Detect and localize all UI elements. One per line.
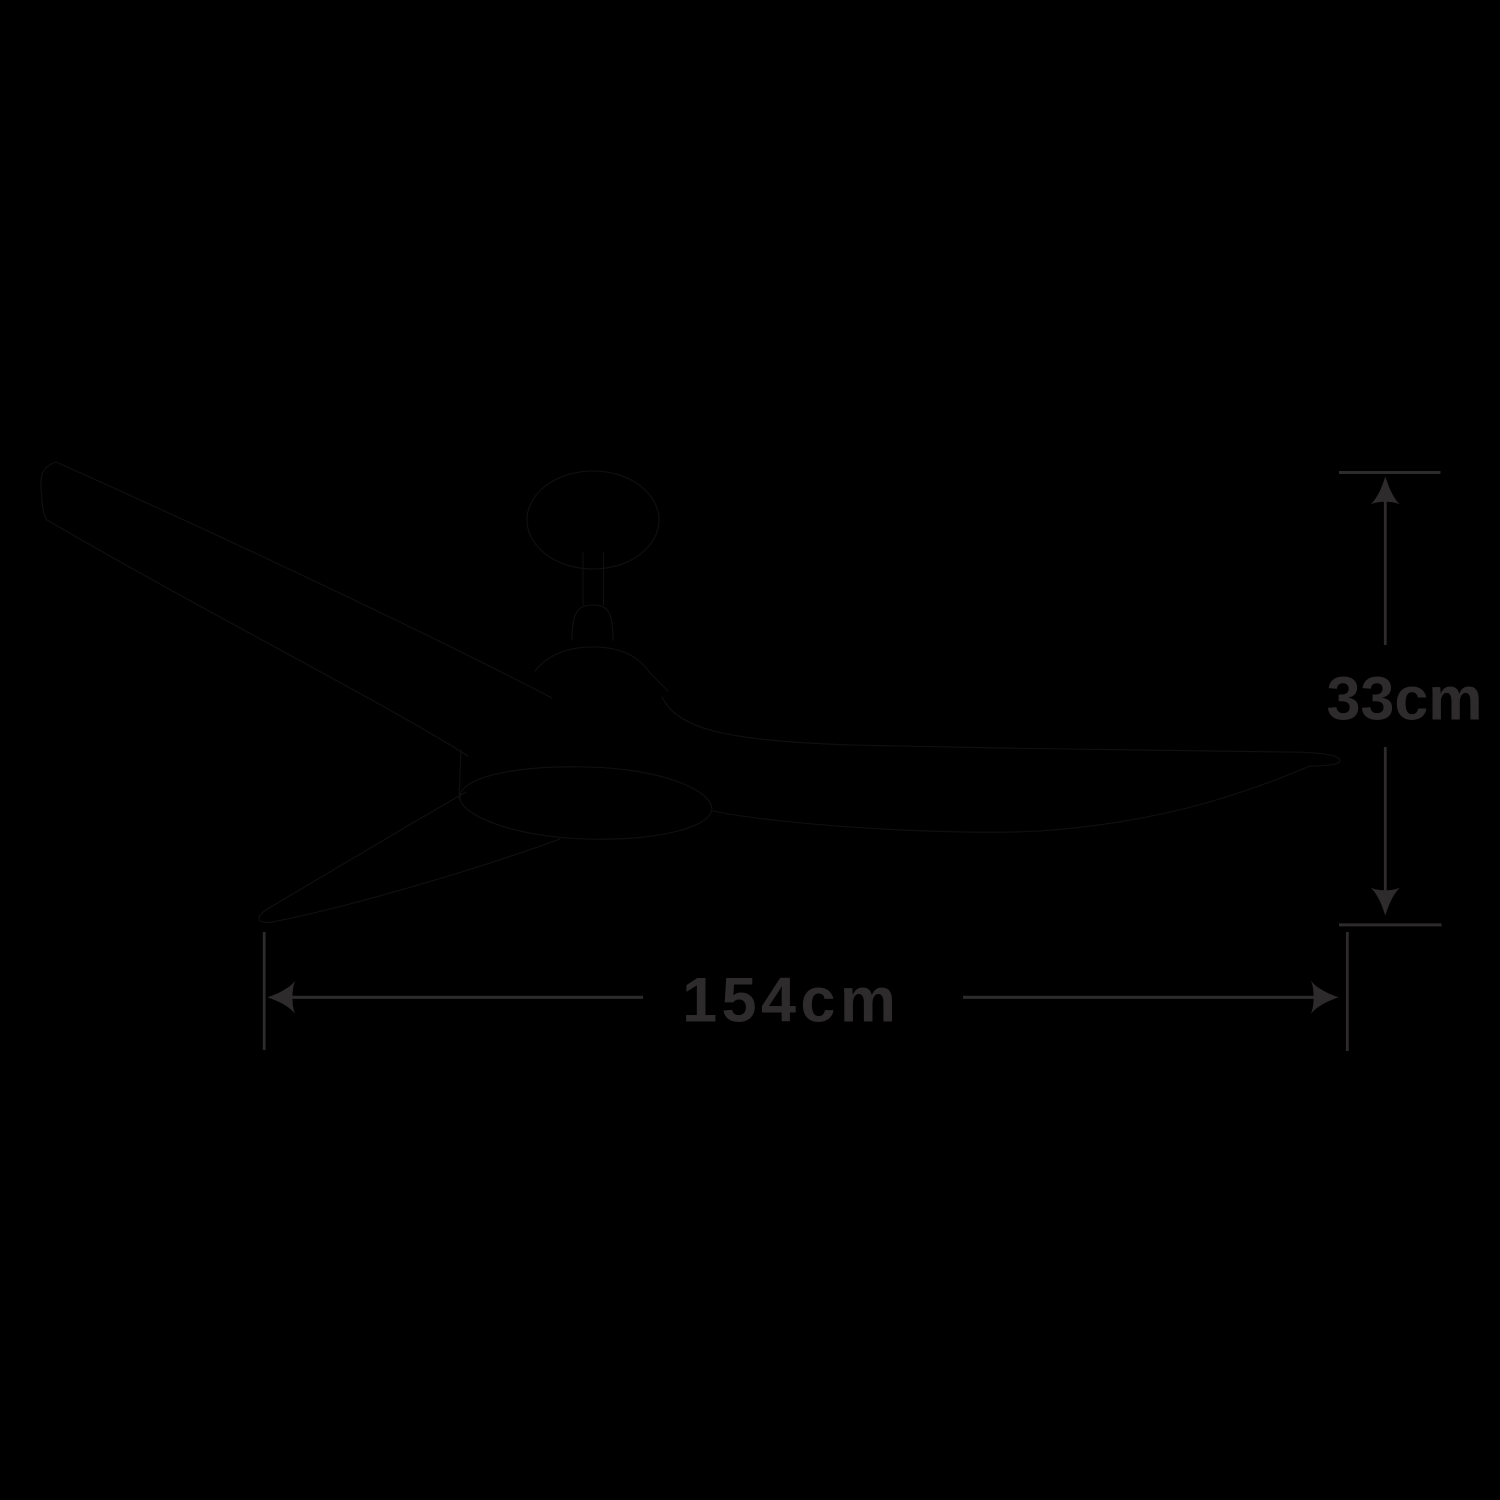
blade B1 upper-left : tip	[41, 462, 56, 520]
blade B1 upper-left : upper edge	[56, 462, 552, 698]
blade B3 right : top edge	[662, 697, 1285, 752]
dim H left arrowhead	[267, 981, 295, 1014]
canopy dome	[527, 471, 659, 569]
blade B2 lower-left : upper edge	[274, 792, 466, 905]
dim V top tick	[1339, 471, 1441, 474]
downrod	[583, 552, 604, 605]
downrod mount bell	[572, 605, 613, 640]
blade B2 lower-left : tip	[259, 905, 274, 922]
blade B2 lower-left : lower edge	[272, 839, 560, 922]
dim H right arrowhead	[1311, 981, 1339, 1014]
dim H left extension line	[263, 932, 266, 1050]
dim V upper shaft	[1384, 501, 1387, 645]
svg-text:154cm: 154cm	[682, 965, 900, 1035]
dim H right shaft	[963, 996, 1314, 999]
motor top dome	[535, 647, 668, 691]
blade B1 upper-left : lower edge	[47, 520, 468, 756]
dim H right extension line	[1346, 932, 1349, 1051]
dim V up arrowhead	[1371, 477, 1400, 505]
blade B3 right : bottom edge	[713, 766, 1310, 832]
dim V down arrowhead	[1371, 888, 1400, 916]
dim H left shaft	[292, 996, 643, 999]
dim V bottom tick	[1339, 923, 1442, 926]
motor body ellipse	[460, 767, 712, 839]
svg-text:33cm: 33cm	[1326, 664, 1482, 732]
motor bracket	[459, 750, 461, 799]
dim V lower shaft	[1384, 747, 1387, 891]
blade B3 right : tip	[1285, 752, 1340, 766]
